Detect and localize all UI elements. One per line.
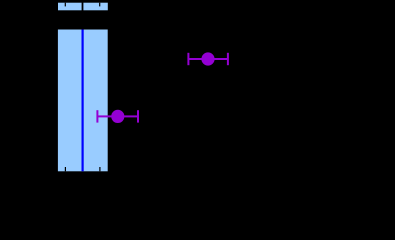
center value line: [82, 30, 84, 172]
bottom axis tick (left): [65, 167, 66, 171]
top axis tick (left): [65, 3, 66, 7]
bottom axis tick (right): [99, 167, 100, 171]
errorbar point 1 marker: [201, 52, 214, 65]
errorbar point 1 right cap: [227, 53, 229, 65]
errorbar point 2 marker: [111, 110, 124, 123]
errorbar point 2 horizontal bar: [97, 115, 138, 117]
errorbar point 1 left cap: [187, 53, 189, 65]
top axis tick (right): [99, 3, 100, 7]
errorbar point 1 horizontal bar: [188, 58, 228, 60]
errorbar point 2 left cap: [96, 110, 98, 122]
top strip band (left segment): [58, 3, 82, 11]
top strip band (right segment): [83, 3, 107, 11]
errorbar point 2 right cap: [137, 110, 139, 122]
main confidence band: [58, 30, 108, 172]
